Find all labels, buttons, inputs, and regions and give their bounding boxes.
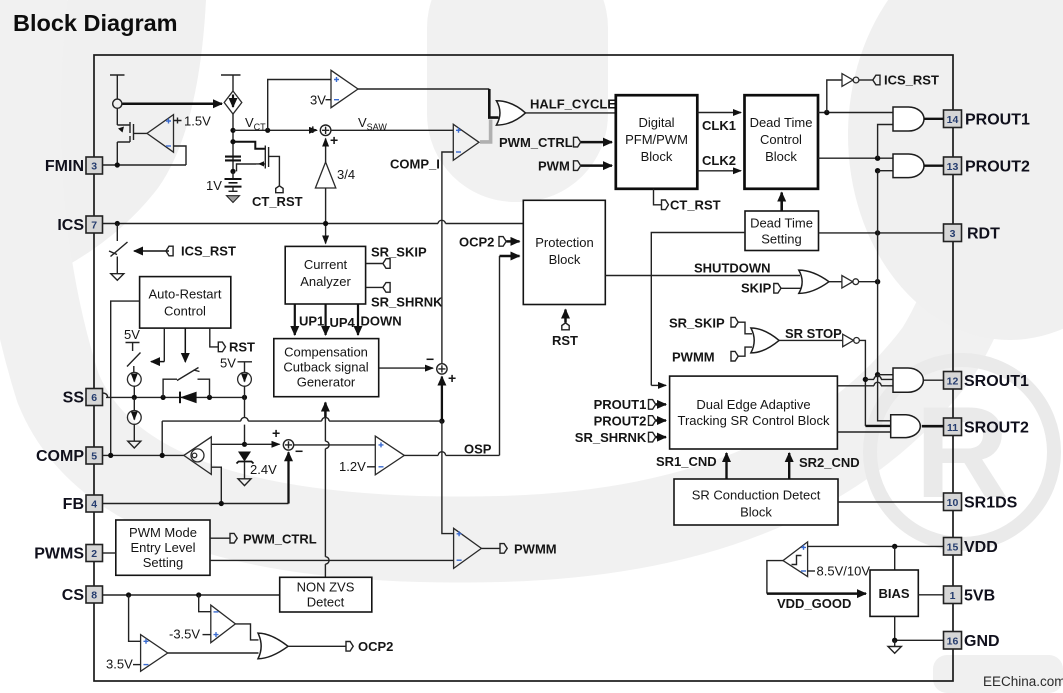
- svg-text:+: +: [448, 370, 456, 386]
- svg-text:UP1: UP1: [299, 314, 324, 329]
- wire VDD line: [808, 545, 944, 547]
- wire bus A thick to AND4: [865, 425, 890, 427]
- diode SS: [180, 392, 197, 404]
- svg-text:PWMM: PWMM: [672, 350, 715, 365]
- block SR Conduction Detect: [674, 479, 838, 525]
- svg-text:SR_SKIP: SR_SKIP: [371, 245, 427, 260]
- svg-text:RST: RST: [229, 340, 255, 355]
- svg-text:COMP_I: COMP_I: [390, 157, 440, 172]
- comparator B 3.5V: [141, 635, 168, 672]
- ground ICS switch: [111, 274, 124, 281]
- ground below battery: [227, 191, 240, 202]
- wire SKIP to or gate: [781, 287, 801, 289]
- comparator 1.2V: [375, 436, 404, 475]
- wire SS to I2: [133, 397, 135, 441]
- wire CS line: [103, 594, 280, 596]
- svg-text:Control: Control: [760, 132, 802, 147]
- wire OCP2 out: [288, 645, 346, 647]
- wire COMP line: [103, 454, 184, 456]
- svg-text:1V: 1V: [206, 178, 222, 193]
- node FMIN junction: [115, 162, 120, 167]
- outer border: [94, 55, 953, 681]
- watermark eechina patch: [933, 655, 1063, 693]
- svg-text:Setting: Setting: [143, 555, 183, 570]
- wire CS to comparator B plus: [129, 595, 141, 641]
- svg-text:6: 6: [91, 392, 97, 404]
- or gate OCP2: [258, 633, 288, 659]
- hop nonzvs over summing2 out: [325, 441, 329, 448]
- svg-text:1: 1: [950, 590, 956, 602]
- inverter shutdown: [842, 276, 859, 289]
- wire PWMM output: [481, 547, 500, 549]
- wire gm minus input to FB: [211, 467, 221, 503]
- summing node circle 3: [437, 364, 447, 374]
- pin PWMS 2: [34, 545, 102, 563]
- wire comparator minus to FMIN line: [174, 146, 187, 165]
- wire diamond down to VCT: [232, 114, 234, 171]
- inverter ICS_RST: [842, 74, 859, 87]
- power rail T 5V-2: [238, 362, 253, 373]
- pin 5VB 1: [944, 586, 996, 605]
- wire dual edge out2: [837, 431, 890, 433]
- wire SR1_CND arrow: [725, 453, 727, 479]
- svg-text:CLK1: CLK1: [702, 118, 736, 133]
- wire PROUT2 arrow: [656, 419, 666, 422]
- svg-text:SHUTDOWN: SHUTDOWN: [694, 261, 771, 276]
- svg-text:CS: CS: [62, 587, 85, 604]
- svg-text:Auto-Restart: Auto-Restart: [149, 287, 222, 302]
- node bus B AND3 branch: [875, 372, 880, 377]
- svg-text:1.2V: 1.2V: [339, 459, 366, 474]
- svg-text:-3.5V: -3.5V: [169, 627, 200, 642]
- svg-text:SR1DS: SR1DS: [964, 495, 1018, 512]
- node CS branch 2: [196, 592, 201, 597]
- zener 2.4V: [237, 452, 254, 479]
- terminal CT_RST gate: [276, 186, 283, 193]
- wire control arrow to switch1: [163, 328, 165, 362]
- hop comp net over 2.4V vertical: [241, 417, 248, 421]
- label 3V: [310, 93, 331, 108]
- svg-text:8.5V/10V: 8.5V/10V: [817, 564, 871, 579]
- block Digital PFM/PWM: [616, 95, 698, 189]
- pin SR1DS 10: [944, 493, 1018, 512]
- current source I2 discharge: [127, 411, 141, 425]
- wire COMP_I output gray shadow: [480, 120, 491, 142]
- block Current Analyzer: [285, 246, 365, 304]
- svg-text:Tracking SR Control Block: Tracking SR Control Block: [678, 413, 830, 428]
- arrow onto switch1: [151, 361, 164, 363]
- wire DTC out1 to AND1: [818, 112, 893, 114]
- wire PWM_CTRL arrow into block: [581, 141, 612, 144]
- wire PWM_CTRL out: [210, 537, 230, 539]
- wire circle to transistor Q1: [116, 108, 118, 125]
- node bus A junction: [863, 377, 868, 382]
- pin FB 4: [63, 495, 103, 513]
- pin PROUT2 13: [944, 157, 1031, 176]
- svg-text:PWM Mode: PWM Mode: [129, 525, 197, 540]
- ground zener: [238, 479, 251, 486]
- wire 3/4 output to summing node: [325, 139, 327, 163]
- svg-text:ICS_RST: ICS_RST: [181, 244, 236, 259]
- pin PROUT1 14: [944, 110, 1031, 129]
- comparator 3V: [331, 70, 358, 107]
- wire branch up to AND1 second input: [878, 125, 893, 159]
- svg-text:SS: SS: [63, 390, 85, 407]
- pin CS 8: [62, 586, 103, 604]
- svg-text:SR_SKIP: SR_SKIP: [669, 316, 725, 331]
- transistor Q1: [117, 122, 147, 165]
- wire I1 to SS line: [133, 386, 135, 397]
- node VCT: [230, 128, 235, 133]
- svg-text:Dead Time: Dead Time: [750, 216, 813, 231]
- svg-text:CT_RST: CT_RST: [252, 194, 303, 209]
- ground BIAS: [888, 640, 901, 653]
- svg-text:7: 7: [91, 220, 97, 232]
- comparator COMP_I: [453, 124, 479, 160]
- svg-text:VDD_GOOD: VDD_GOOD: [777, 596, 851, 611]
- hop ICS over COMP_I vertical: [438, 220, 446, 223]
- terminal PWM: [538, 159, 581, 174]
- wire CLK2: [697, 170, 741, 172]
- or gate HALF_CYCLE: [496, 101, 525, 125]
- svg-text:13: 13: [947, 161, 959, 173]
- terminal OCP2 input: [499, 237, 506, 247]
- svg-text:8: 8: [91, 590, 97, 602]
- summing node circle 1: [320, 125, 331, 136]
- pin ICS 7: [57, 216, 102, 234]
- svg-text:CT_RST: CT_RST: [670, 198, 721, 213]
- or gate shutdown skip: [799, 270, 829, 293]
- terminal SR_SKIP gate input: [731, 317, 738, 327]
- terminal PWMM gate input: [731, 351, 738, 361]
- wire DTS left to dual edge block: [651, 233, 745, 386]
- power rail T 5V-1: [126, 343, 140, 352]
- svg-text:5VB: 5VB: [964, 588, 995, 605]
- svg-text:SR_SHRNK: SR_SHRNK: [575, 430, 647, 445]
- svg-text:RDT: RDT: [967, 226, 1000, 243]
- wire OSP arrow into protection: [500, 255, 520, 258]
- and gate AND4 SROUT2: [891, 415, 921, 438]
- svg-text:11: 11: [947, 422, 958, 434]
- wire inverter to terminal: [859, 79, 873, 81]
- wire DTC out2 to AND2: [818, 157, 893, 159]
- svg-text:Current: Current: [304, 257, 348, 272]
- wire comparator B out to or gate: [168, 652, 259, 654]
- wire ICS_RST control arrow: [134, 250, 169, 252]
- hop comp net over OSP vertical: [322, 417, 329, 421]
- wire SR1DS line: [838, 501, 944, 503]
- wire comp net down to PWMM: [442, 421, 454, 533]
- svg-text:Digital: Digital: [638, 115, 674, 130]
- svg-text:OSP: OSP: [464, 442, 492, 457]
- wire up to ICS_RST inverter: [827, 80, 842, 113]
- wire VDD_GOOD: [767, 561, 783, 594]
- and gate AND1 PROUT1: [893, 107, 924, 131]
- svg-text:CLK2: CLK2: [702, 153, 736, 168]
- svg-text:3: 3: [950, 228, 956, 240]
- svg-text:UP4: UP4: [330, 315, 356, 330]
- node DTC out2 branch: [875, 156, 880, 161]
- terminal RST: [562, 323, 569, 330]
- wire AND2 lower input stub: [878, 170, 893, 172]
- terminal SR_SHRNK out: [366, 283, 391, 293]
- wire control arrow to switch2: [184, 328, 186, 362]
- wire arrow into dual edge block: [651, 384, 666, 386]
- svg-text:SROUT2: SROUT2: [964, 420, 1029, 437]
- wire pwm mode to PWMM minus: [210, 559, 454, 561]
- wire SS line: [103, 393, 245, 397]
- current source I1: [127, 372, 141, 386]
- transistor Q2 CT_RST switch: [233, 142, 279, 186]
- wire bus B down to AND4: [878, 375, 891, 421]
- wire thick arrow to current source: [122, 102, 222, 105]
- svg-text:GND: GND: [964, 633, 1000, 650]
- hop out1 over bus B: [874, 382, 881, 386]
- svg-text:Block Diagram: Block Diagram: [13, 10, 178, 36]
- node SS diode anode: [161, 395, 166, 400]
- terminal RST auto-restart: [218, 342, 225, 352]
- svg-text:PROUT1: PROUT1: [965, 112, 1030, 129]
- block Compensation Cutback signal Generator: [274, 339, 379, 397]
- wire sr stop to AND3: [865, 378, 893, 380]
- node GND junction: [892, 638, 897, 643]
- terminal PROUT1 input: [649, 400, 656, 410]
- hop OSP over comp vertical: [438, 452, 445, 456]
- wire inverter to vertical bus: [859, 281, 878, 283]
- wire ICS line to current analyzer: [325, 224, 327, 244]
- node 2.4V ref junction: [242, 442, 247, 447]
- wire inverter to vertical bus A: [860, 340, 866, 426]
- svg-text:+: +: [330, 132, 338, 148]
- ground I2: [128, 441, 141, 448]
- battery 1V: [225, 171, 242, 191]
- wire auto-restart left to COMP line: [111, 301, 140, 455]
- and gate AND3 SROUT1: [893, 368, 923, 392]
- block Dead Time Control: [745, 95, 819, 189]
- wire RDT line: [819, 232, 944, 234]
- wire comp net down to COMP line: [161, 421, 163, 455]
- pin GND 16: [944, 632, 1000, 651]
- svg-text:PROUT2: PROUT2: [965, 159, 1030, 176]
- power rail T above current mirror: [110, 75, 125, 99]
- svg-text:PWM: PWM: [538, 159, 570, 174]
- wire ICS line: [103, 223, 524, 225]
- svg-text:2: 2: [91, 548, 97, 560]
- wire FB line: [103, 503, 289, 505]
- switch SS bypass: [163, 368, 209, 398]
- current source diamond: [224, 91, 242, 114]
- pin COMP 5: [36, 447, 103, 465]
- svg-text:1.5V: 1.5V: [184, 114, 211, 129]
- node shutdown inverter junction: [875, 279, 880, 284]
- svg-text:Analyzer: Analyzer: [300, 274, 351, 289]
- svg-text:Control: Control: [164, 304, 206, 319]
- wire PWMM to or gate: [739, 347, 753, 356]
- amp 3/4: [315, 162, 335, 188]
- svg-text:Dead Time: Dead Time: [750, 115, 813, 130]
- svg-text:Generator: Generator: [297, 375, 356, 390]
- power rail T above diamond source: [221, 75, 241, 91]
- terminal ICS_RST top: [873, 75, 880, 85]
- wire SHUTDOWN line: [605, 275, 800, 277]
- wire vertical bus B: [877, 171, 879, 375]
- node SS diode cathode: [207, 395, 212, 400]
- terminal SR_SKIP out: [366, 259, 391, 269]
- block Dead Time Setting: [745, 211, 819, 251]
- svg-text:−: −: [426, 351, 434, 367]
- wire nonzvs vertical: [324, 404, 326, 578]
- wire summing 3 to COMP_I minus: [442, 152, 453, 364]
- svg-text:EEChina.com: EEChina.com: [983, 674, 1063, 689]
- wire AND3 output: [923, 379, 943, 381]
- watermark registered R circle: [870, 360, 1054, 544]
- terminal OCP2 out: [346, 642, 353, 652]
- wire PROUT1 arrow: [656, 403, 666, 406]
- svg-text:ICS: ICS: [57, 217, 84, 234]
- wire DOWN arrow: [357, 304, 359, 335]
- node CS branch 1: [126, 592, 131, 597]
- svg-text:10: 10: [947, 497, 959, 509]
- pin SROUT2 11: [944, 418, 1030, 437]
- node AND2 lower input junction: [875, 168, 880, 173]
- wire dual edge out1: [837, 385, 893, 387]
- svg-text:PROUT2: PROUT2: [594, 413, 647, 428]
- svg-text:DOWN: DOWN: [361, 314, 402, 329]
- terminal SKIP: [774, 284, 781, 294]
- wire OSP line: [404, 454, 499, 456]
- inverter SR STOP: [843, 334, 860, 347]
- svg-text:FMIN: FMIN: [45, 158, 84, 175]
- wire compensation out to summing node 3: [379, 367, 433, 369]
- pin FMIN 3: [45, 157, 103, 175]
- hop srstop over bus B: [874, 376, 881, 380]
- svg-text:FB: FB: [63, 496, 84, 513]
- wire I3 to SS line and down to 2.4V: [244, 386, 246, 444]
- svg-text:Block: Block: [740, 505, 772, 520]
- terminal PWM_CTRL out: [230, 533, 237, 543]
- wire nonzvs arrow into compensation: [324, 403, 327, 418]
- node comp net junction: [439, 418, 444, 423]
- svg-text:16: 16: [947, 636, 959, 648]
- wire OSP vertical to protection: [499, 256, 501, 455]
- terminal ICS_RST control: [166, 246, 173, 256]
- wire AND1 output to pin14: [924, 118, 944, 120]
- node ICS switch branch: [115, 221, 120, 226]
- watermark swoosh: [18, 0, 1001, 539]
- wire FB up arrow into summing 2: [287, 452, 289, 503]
- block BIAS: [870, 570, 918, 616]
- wire HALF_CYCLE: [526, 112, 616, 114]
- wire comp net horizontal: [162, 420, 442, 422]
- svg-text:VCT: VCT: [245, 115, 266, 132]
- svg-text:PWM_CTRL: PWM_CTRL: [499, 135, 573, 150]
- wire FMIN pin line: [103, 164, 187, 166]
- current source I3: [238, 372, 252, 386]
- svg-text:PWMM: PWMM: [514, 542, 557, 557]
- pin SS 6: [63, 389, 103, 407]
- wire BIAS to 5VB: [918, 594, 943, 596]
- comparator PWMM: [454, 528, 482, 568]
- summing node circle 2: [283, 440, 293, 450]
- svg-text:Entry Level: Entry Level: [130, 540, 195, 555]
- block Auto-Restart Control: [140, 277, 231, 329]
- wire comparator A out to or gate: [235, 624, 258, 640]
- wire PWMS pin to block: [103, 552, 116, 554]
- svg-text:5V: 5V: [124, 327, 140, 342]
- svg-text:SKIP: SKIP: [741, 281, 772, 296]
- svg-text:OCP2: OCP2: [459, 235, 494, 250]
- svg-text:SR Conduction Detect: SR Conduction Detect: [692, 488, 821, 503]
- wire 3/4 input from ICS line: [325, 188, 327, 224]
- wire UP4 arrow: [325, 304, 327, 335]
- wire SR_SHRNK arrow: [656, 436, 666, 439]
- node ICS 3/4 branch: [323, 221, 328, 226]
- label 1.2V: [339, 459, 375, 474]
- svg-text:14: 14: [947, 114, 959, 126]
- current mirror input circle: [113, 99, 122, 108]
- node SS I1: [132, 395, 137, 400]
- svg-text:Cutback signal: Cutback signal: [283, 360, 368, 375]
- error amp gm: [184, 437, 212, 475]
- svg-text:SR1_CND: SR1_CND: [656, 454, 717, 469]
- wire RST arrow into protection: [564, 310, 567, 323]
- pin VDD 15: [944, 538, 998, 557]
- wire gm plus input: [211, 443, 244, 445]
- pin SROUT1 12: [944, 372, 1030, 391]
- svg-text:4: 4: [91, 499, 97, 511]
- terminal PWM_CTRL: [499, 135, 581, 150]
- node FB gm branch: [219, 501, 224, 506]
- svg-text:3/4: 3/4: [337, 167, 355, 182]
- wire 3V comparator output: [358, 88, 489, 90]
- watermark top-right blob: [848, 0, 1063, 340]
- wire summing 2 to 1.2V comparator: [294, 444, 376, 446]
- svg-text:15: 15: [947, 542, 959, 554]
- svg-text:NON ZVS: NON ZVS: [297, 580, 355, 595]
- node capacitor top: [230, 139, 235, 144]
- comparator A -3.5V: [211, 605, 236, 643]
- node DTC out1 branch: [824, 110, 829, 115]
- svg-text:BIAS: BIAS: [878, 586, 909, 601]
- wire AND3 top input: [878, 374, 893, 376]
- switch ICS_RST discharge: [109, 224, 128, 274]
- node COMP auto-restart branch: [108, 453, 113, 458]
- svg-text:3.5V: 3.5V: [106, 657, 133, 672]
- block NON ZVS Detect: [280, 577, 372, 612]
- op-amp comparator 1.5V: [147, 115, 174, 153]
- svg-text:VSAW: VSAW: [358, 115, 387, 132]
- node capacitor bottom: [230, 169, 235, 174]
- watermark top band: [427, 0, 608, 202]
- terminal PROUT2 input: [649, 416, 656, 426]
- wire VCT up to 3V comparator: [268, 80, 331, 131]
- svg-text:+: +: [272, 425, 280, 441]
- wire CT_RST from digital block: [654, 189, 662, 205]
- svg-text:Block: Block: [641, 149, 673, 164]
- wire DTS up arrow to DTC: [780, 193, 783, 212]
- wire comp net up into summing 3: [441, 377, 443, 422]
- wire UP1 arrow: [294, 304, 296, 335]
- wire VSAW: [331, 129, 453, 131]
- svg-text:5V: 5V: [220, 356, 236, 371]
- svg-text:3: 3: [91, 161, 97, 173]
- wire AND2 output to pin13: [924, 164, 944, 166]
- svg-text:Protection: Protection: [535, 235, 594, 250]
- wire VDD into BIAS: [894, 546, 896, 570]
- terminal CT_RST out: [662, 200, 669, 210]
- svg-text:SR STOP: SR STOP: [785, 326, 842, 341]
- svg-text:Detect: Detect: [307, 595, 345, 610]
